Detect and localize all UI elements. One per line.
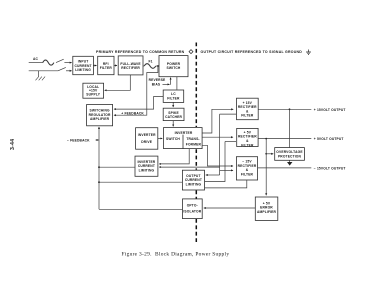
- svg-text:INVERTER: INVERTER: [138, 133, 156, 137]
- svg-text:FILTER: FILTER: [100, 66, 113, 70]
- svg-text:FILTER: FILTER: [241, 173, 254, 177]
- svg-text:3-44: 3-44: [10, 139, 16, 150]
- svg-text:RECTIFIER: RECTIFIER: [121, 66, 140, 70]
- svg-text:SUPPLY: SUPPLY: [86, 92, 100, 96]
- svg-text:LIMITING: LIMITING: [75, 68, 91, 72]
- svg-text:FORMER: FORMER: [186, 143, 202, 147]
- svg-text:− 15VOLT OUTPUT: − 15VOLT OUTPUT: [314, 167, 346, 171]
- svg-text:TRANS-: TRANS-: [186, 137, 199, 141]
- svg-text:OPTO-: OPTO-: [187, 204, 198, 208]
- svg-text:ISOLATOR: ISOLATOR: [183, 210, 201, 214]
- svg-text:− FEEDBACK: − FEEDBACK: [67, 139, 90, 143]
- svg-text:REVERSE: REVERSE: [149, 78, 166, 82]
- svg-text:AMPLIFIER: AMPLIFIER: [257, 210, 277, 214]
- svg-text:BIAS: BIAS: [152, 83, 161, 87]
- svg-text:+ 5VOLT OUTPUT: + 5VOLT OUTPUT: [314, 137, 344, 141]
- svg-text:INVERTER: INVERTER: [175, 131, 193, 135]
- svg-text:+ FEEDBACK: + FEEDBACK: [121, 111, 144, 115]
- svg-text:DRIVE: DRIVE: [141, 140, 152, 144]
- svg-text:+ 15VOLT OUTPUT: + 15VOLT OUTPUT: [314, 108, 346, 112]
- svg-text:AC: AC: [33, 57, 39, 61]
- svg-text:F1: F1: [149, 59, 153, 63]
- svg-text:LIMITING: LIMITING: [139, 168, 155, 172]
- svg-text:Figure 3-29. Block Diagram, P: Figure 3-29. Block Diagram, Power Supply: [122, 252, 230, 258]
- svg-text:CATCHER: CATCHER: [165, 115, 182, 119]
- svg-text:PROTECTION: PROTECTION: [278, 155, 302, 159]
- svg-text:AMPLIFIER: AMPLIFIER: [90, 117, 110, 121]
- svg-text:FILTER: FILTER: [167, 97, 180, 101]
- svg-text:PRIMARY REFERENCED TO COMMON R: PRIMARY REFERENCED TO COMMON RETURN: [96, 50, 185, 54]
- svg-text:SWITCH: SWITCH: [166, 137, 180, 141]
- svg-text:FILTER: FILTER: [241, 143, 254, 147]
- svg-text:LIMITING: LIMITING: [186, 183, 202, 187]
- svg-text:OUTPUT CIRCUIT REFERENCED TO S: OUTPUT CIRCUIT REFERENCED TO SIGNAL GROU…: [201, 50, 303, 54]
- svg-text:OVERVOLTAGE: OVERVOLTAGE: [276, 150, 303, 154]
- svg-text:FILTER: FILTER: [241, 114, 254, 118]
- svg-text:SWITCH: SWITCH: [167, 66, 181, 70]
